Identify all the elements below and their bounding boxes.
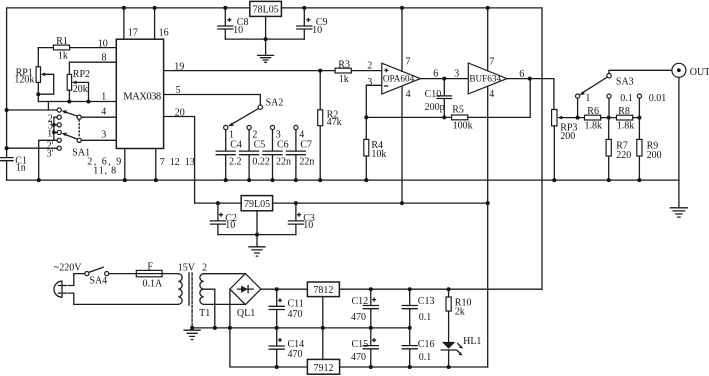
svg-text:17: 17 — [128, 28, 138, 39]
svg-text:R3: R3 — [338, 59, 350, 70]
wire: secondary center tap to ground rail — [204, 289, 215, 328]
wire: MAX038 pin 4 wire — [81, 107, 116, 118]
wire: OPA604 pin 7 (+12V) — [400, 6, 410, 71]
svg-text:4: 4 — [489, 89, 494, 100]
switch SA2 contact 4 — [294, 125, 298, 129]
potentiometer RP1 — [14, 48, 53, 102]
wire: feedback line to R5 — [366, 116, 451, 118]
svg-text:120k: 120k — [14, 75, 34, 86]
wire: 78L05 output side top wire (+12V side) — [281, 8, 542, 289]
wire: OPA604 output to BUF634 — [420, 69, 468, 81]
capacitor C1 — [0, 155, 27, 173]
wire: 7812/7912 ground lead — [322, 297, 324, 360]
svg-text:10: 10 — [98, 39, 108, 50]
wire: primary bottom return — [74, 303, 179, 305]
switch SA2 — [228, 98, 284, 127]
svg-text:78L05: 78L05 — [253, 4, 279, 15]
wire: fuse to T1 primary — [162, 273, 178, 275]
svg-text:0.22: 0.22 — [252, 156, 270, 167]
resistor R1 — [38, 36, 116, 62]
transformer T1 — [178, 263, 211, 328]
svg-text:OUT: OUT — [690, 67, 709, 78]
svg-text:200p: 200p — [425, 102, 445, 113]
svg-text:0.1: 0.1 — [419, 312, 432, 323]
svg-text:C15: C15 — [352, 339, 369, 350]
resistor R6 — [585, 106, 617, 131]
svg-text:HL1: HL1 — [463, 336, 481, 347]
svg-text:1.8k: 1.8k — [617, 120, 635, 131]
svg-text:C10: C10 — [425, 89, 442, 100]
svg-text:100k: 100k — [453, 120, 473, 131]
capacitor C7 — [286, 130, 314, 183]
svg-text:1k: 1k — [339, 74, 349, 85]
wire: OPA604 inverting input to feedback node — [366, 85, 382, 117]
switch SA2 contact 2 — [247, 125, 251, 129]
capacitor C9 — [297, 8, 328, 39]
svg-text:1.8k: 1.8k — [585, 120, 603, 131]
svg-text:20: 20 — [175, 108, 185, 119]
svg-text:MAX038: MAX038 — [123, 91, 161, 102]
switch SA3 contact 1 — [576, 93, 591, 119]
svg-text:R8: R8 — [618, 106, 630, 117]
svg-text:1': 1' — [47, 128, 54, 139]
svg-text:470: 470 — [351, 352, 366, 363]
bridge rectifier QL1 — [230, 274, 261, 320]
resistor R5 — [452, 79, 531, 132]
svg-text:C12: C12 — [352, 296, 369, 307]
capacitor C15 — [351, 328, 378, 369]
wire: bridge plus to 7812 — [261, 288, 308, 290]
wire: secondary bottom to bridge — [204, 303, 246, 305]
svg-text:C4: C4 — [230, 140, 242, 151]
svg-text:4: 4 — [101, 107, 106, 118]
resistor R2 — [318, 69, 342, 183]
svg-text:R1: R1 — [56, 36, 68, 47]
regulator U7 7912 — [307, 359, 339, 374]
resistor R4 — [364, 115, 387, 182]
svg-text:C6: C6 — [277, 140, 289, 151]
svg-text:BUF634: BUF634 — [469, 73, 501, 83]
svg-text:C16: C16 — [418, 339, 435, 350]
wire: MAX038 bottom pin lead (7,12,13) — [154, 149, 195, 183]
connector OUT — [672, 63, 709, 180]
capacitor C16 — [402, 328, 434, 369]
node: bridge riser at ground rail — [228, 326, 232, 330]
switch SA2 contact 1 — [224, 125, 228, 129]
capacitor C4 — [216, 130, 242, 183]
wire: pin1 to SA1 common link — [47, 102, 49, 111]
wire: socket contacts to SA4 and bottom — [68, 274, 85, 305]
svg-text:QL1: QL1 — [237, 308, 255, 319]
resistor R7 — [606, 118, 631, 183]
wire: -12V rail from 79L05 input to BUF pin4 riser — [273, 202, 488, 204]
wire: MAX038 pin 8 net — [69, 52, 116, 63]
switch SA4 — [85, 267, 109, 286]
node: junction dots on top wire — [122, 6, 126, 10]
node: border junction SA1 wire — [5, 108, 9, 112]
svg-text:SA4: SA4 — [89, 275, 107, 286]
svg-text:2: 2 — [367, 61, 372, 72]
wire: MAX038 pin 3 wire — [81, 130, 116, 141]
ground (79L05) — [249, 247, 265, 256]
wire: left+top border (+5V net) — [7, 8, 250, 157]
svg-text:47k: 47k — [327, 117, 342, 128]
capacitor C2 — [210, 203, 236, 235]
regulator U4 78L05 — [250, 1, 282, 16]
svg-text:0.1A: 0.1A — [143, 279, 164, 290]
svg-text:22n: 22n — [276, 156, 291, 167]
svg-text:1: 1 — [101, 91, 106, 102]
svg-text:F: F — [147, 262, 153, 273]
svg-text:6: 6 — [433, 69, 438, 80]
svg-text:10: 10 — [233, 25, 243, 36]
node: SA1 bus to ground bus — [37, 178, 41, 182]
svg-text:0.01: 0.01 — [649, 93, 667, 104]
svg-text:0.1: 0.1 — [620, 93, 633, 104]
potentiometer RP3 — [552, 110, 585, 183]
svg-text:19: 19 — [174, 61, 184, 72]
potentiometer RP2 — [67, 62, 90, 101]
node: RP2 wiper on pin1 wire — [87, 100, 91, 104]
switch SA1 — [5, 108, 90, 180]
fuse F 0.1A — [136, 262, 163, 290]
wire: BUF634 pin 7 (+12V) — [486, 6, 495, 71]
IC U1 MAX038 — [116, 39, 163, 148]
svg-text:7912: 7912 — [314, 363, 334, 374]
svg-text:7812: 7812 — [313, 285, 333, 296]
wire: 78L05 ground lead — [265, 16, 267, 55]
wire: BUF634 output — [507, 69, 554, 110]
LED HL1 — [441, 336, 481, 369]
wire: secondary top to bridge — [204, 273, 246, 275]
buffer U3 BUF634 — [468, 63, 507, 94]
capacitor C5 — [240, 130, 270, 183]
svg-text:11, 8: 11, 8 — [93, 166, 117, 177]
wire: SA4 to fuse — [109, 273, 137, 275]
node: center tap on ground rail — [213, 326, 217, 330]
svg-text:200: 200 — [647, 150, 662, 161]
svg-text:SA3: SA3 — [616, 77, 634, 88]
svg-text:C13: C13 — [418, 296, 435, 307]
wire: MAX038 pin 1 net — [38, 91, 116, 102]
svg-text:22n: 22n — [299, 156, 314, 167]
switch SA3 contact 0.1 — [607, 93, 633, 119]
wire: OPA604 pin 4 (-12V) — [400, 86, 411, 205]
svg-text:7: 7 — [405, 56, 410, 67]
svg-text:3: 3 — [367, 77, 372, 88]
wire: border to SA1 pole contact — [7, 109, 57, 111]
wire: bridge minus riser to -12V bottom rail — [230, 289, 308, 367]
svg-text:10: 10 — [225, 220, 235, 231]
ground (transformer shield) — [184, 326, 200, 340]
svg-text:2: 2 — [202, 263, 207, 274]
capacitor C13 — [402, 287, 434, 330]
svg-text:10: 10 — [303, 220, 313, 231]
svg-text:2k: 2k — [455, 307, 465, 318]
resistor R10 — [446, 287, 471, 342]
switch SA2 contact 3 — [270, 125, 274, 129]
svg-text:C14: C14 — [288, 339, 305, 350]
svg-text:6: 6 — [519, 69, 524, 80]
svg-text:1n: 1n — [16, 163, 26, 174]
svg-text:470: 470 — [351, 312, 366, 323]
capacitor C14 — [269, 328, 304, 369]
wire: C8-C9 ground link — [225, 38, 304, 40]
wire: MAX038 bottom pin lead (2,6,9,11,8) — [124, 149, 126, 181]
svg-text:0.1: 0.1 — [419, 352, 432, 363]
wire: -12V bottom rail — [340, 366, 488, 368]
node: C2 top — [216, 201, 220, 205]
svg-text:470: 470 — [288, 349, 303, 360]
wire: 79L05 ground lead — [256, 211, 258, 247]
svg-text:10k: 10k — [371, 149, 386, 160]
svg-text:220: 220 — [616, 150, 631, 161]
wire: MAX038 pin 16 lead — [155, 8, 169, 39]
svg-text:79L05: 79L05 — [244, 199, 270, 210]
svg-text:7: 7 — [489, 56, 494, 67]
svg-text:~220V: ~220V — [54, 262, 82, 273]
capacitor C12 — [351, 287, 378, 330]
wire: MAX038 pin 19 to R3 / OPA604 — [164, 61, 336, 72]
svg-text:C11: C11 — [288, 299, 304, 310]
ground (78L05) — [258, 55, 274, 62]
label: MAX038 ground pins 2 6 9 11 8 — [87, 157, 123, 177]
switch SA3 contact 0.01 — [637, 93, 666, 119]
svg-text:7 12 13: 7 12 13 — [160, 157, 195, 168]
plug P1 — [54, 281, 66, 297]
node: C9 top — [302, 6, 306, 10]
node: RP1 wiper join — [36, 92, 40, 96]
svg-text:C7: C7 — [300, 140, 312, 151]
ground (output) — [670, 180, 687, 217]
svg-text:1: 1 — [585, 93, 590, 104]
svg-text:C5: C5 — [254, 140, 266, 151]
capacitor C3 — [288, 203, 314, 235]
resistor R8 — [617, 106, 640, 131]
svg-text:R5: R5 — [452, 105, 464, 116]
svg-text:4: 4 — [406, 89, 411, 100]
svg-text:5: 5 — [176, 85, 181, 96]
svg-text:2.2: 2.2 — [229, 156, 242, 167]
svg-text:3': 3' — [47, 148, 54, 159]
regulator U5 79L05 — [241, 196, 272, 211]
wire: MAX038 pin 20 to 79L05 output (-5V) — [164, 108, 242, 204]
svg-text:1k: 1k — [58, 51, 68, 62]
regulator U6 7812 — [307, 282, 339, 297]
svg-text:10: 10 — [312, 25, 322, 36]
svg-text:470: 470 — [288, 309, 303, 320]
wire: +12V rail — [339, 288, 542, 290]
label: SA2 contact numbers — [229, 130, 304, 141]
node: C3 top — [294, 201, 298, 205]
wire: MAX038 pin 17 lead — [124, 8, 138, 39]
svg-text:3: 3 — [454, 69, 459, 80]
svg-text:OPA604: OPA604 — [383, 73, 415, 83]
wire: MAX038 pin 5 to SA2 pole — [164, 85, 261, 105]
svg-text:RP2: RP2 — [73, 69, 90, 80]
svg-text:20k: 20k — [73, 84, 88, 95]
node: RP2 bottom on pin1 wire — [67, 100, 71, 104]
svg-text:200: 200 — [560, 131, 575, 142]
svg-text:8: 8 — [102, 52, 107, 63]
wire: BUF634 pin 4 / -12V riser — [486, 86, 495, 367]
wire: C2-C3 ground link — [218, 234, 296, 236]
capacitor C6 — [263, 130, 291, 183]
capacitor C10 — [425, 79, 452, 120]
svg-text:R6: R6 — [587, 106, 599, 117]
wire: ground bus — [7, 179, 679, 181]
svg-text:SA2: SA2 — [266, 98, 284, 109]
svg-text:3: 3 — [101, 130, 106, 141]
svg-text:15V: 15V — [178, 263, 196, 274]
capacitor C11 — [269, 287, 304, 330]
resistor R9 — [637, 118, 662, 183]
svg-text:16: 16 — [159, 28, 169, 39]
wire: mid ground rail — [192, 327, 410, 329]
switch SA3 — [579, 70, 672, 95]
svg-text:T1: T1 — [199, 308, 210, 319]
op-amp U2 OPA604 — [382, 63, 421, 94]
wire: border below C1 down to ground bus — [6, 161, 8, 180]
resistor R3 — [335, 59, 382, 85]
capacitor C8 — [218, 8, 249, 39]
